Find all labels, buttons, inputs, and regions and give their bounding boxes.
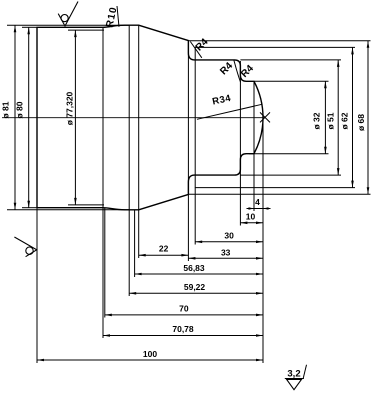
svg-text:22: 22 bbox=[159, 244, 169, 254]
svg-text:3,2: 3,2 bbox=[287, 369, 300, 380]
dim 70 bbox=[105, 314, 263, 316]
dim line dia81 bbox=[14, 25, 16, 210]
part outline bbox=[37, 25, 263, 210]
ext vertical x=188.4 (33 / 22 right) bbox=[187, 41, 189, 261]
ext line dia51 bottom bbox=[240, 174, 341, 176]
svg-text:100: 100 bbox=[143, 349, 157, 359]
svg-text:ø 81: ø 81 bbox=[1, 101, 11, 118]
label R4 second with leader bbox=[234, 60, 241, 82]
svg-text:ø 62: ø 62 bbox=[340, 112, 350, 129]
ext line dia80 top bbox=[22, 26, 37, 28]
ext vertical x=263 (right apex) bbox=[262, 118, 264, 364]
dim 100 bbox=[37, 359, 263, 361]
dim line dia77.32 bbox=[74, 30, 76, 205]
svg-text:56,83: 56,83 bbox=[183, 263, 205, 273]
ext vertical x=254 (4) bbox=[253, 82, 255, 211]
ext line dia32 bottom bbox=[249, 153, 329, 155]
svg-text:ø 32: ø 32 bbox=[312, 112, 322, 129]
ext line dia80 bottom bbox=[22, 207, 37, 209]
dim line dia51 bbox=[337, 60, 339, 175]
ext line dia51 top bbox=[240, 59, 341, 61]
dim line dia62 bbox=[352, 47, 354, 187]
svg-text:70: 70 bbox=[179, 304, 189, 314]
dim 33 bbox=[188, 257, 263, 259]
ext line dia32 top bbox=[254, 80, 329, 82]
ext vertical x=104.8 (70) bbox=[104, 208, 106, 317]
ext vertical x=129.2 (59.22) bbox=[128, 25, 130, 296]
ext vertical x=134.6 (56.83) bbox=[134, 210, 136, 277]
svg-text:ø 51: ø 51 bbox=[326, 112, 336, 129]
dim 59,22 bbox=[129, 292, 263, 294]
ext vertical x=138.7 (22 left) bbox=[138, 25, 140, 258]
dim line dia80 bbox=[28, 27, 30, 207]
svg-text:10: 10 bbox=[246, 211, 256, 221]
svg-text:70,78: 70,78 bbox=[172, 324, 194, 334]
ext line dia81 top bbox=[7, 24, 129, 26]
ext line dia62 bottom bbox=[195, 187, 355, 189]
label R10 with leader bbox=[117, 6, 119, 27]
svg-text:59,22: 59,22 bbox=[184, 282, 206, 292]
svg-text:4: 4 bbox=[255, 197, 260, 207]
ext vertical x=103 (70.78) bbox=[102, 27, 104, 338]
dim 30 bbox=[195, 241, 263, 243]
svg-text:ø 68: ø 68 bbox=[356, 114, 366, 131]
ext vertical x=195.2 (30) bbox=[194, 47, 196, 244]
dim line dia68 bbox=[367, 41, 369, 195]
svg-text:30: 30 bbox=[224, 230, 234, 240]
dim 56,83 bbox=[135, 273, 263, 275]
label R34 with leader bbox=[197, 104, 263, 119]
svg-text:ø 77,320: ø 77,320 bbox=[64, 91, 74, 125]
ext vertical x=240.4 (10) bbox=[239, 61, 241, 226]
ext line dia77.32 top stub bbox=[68, 29, 104, 31]
label R4 first with leader bbox=[190, 42, 202, 58]
dim line dia32 bbox=[324, 81, 326, 153]
ext line dia81 bottom bbox=[7, 209, 129, 211]
ext line dia68 bottom bbox=[188, 193, 370, 195]
ext line dia62 top bbox=[195, 46, 355, 48]
dim 4 bbox=[247, 208, 264, 210]
surface symbol top bbox=[58, 2, 78, 27]
surface symbol left bbox=[14, 237, 36, 257]
svg-text:33: 33 bbox=[221, 247, 231, 257]
dim 10 bbox=[240, 222, 263, 224]
ext line dia77.32 bottom stub bbox=[68, 204, 104, 206]
centerline axis bbox=[2, 117, 265, 119]
svg-text:ø 80: ø 80 bbox=[15, 101, 25, 118]
ext vertical x=37 (left face) bbox=[36, 208, 38, 363]
dim 22 bbox=[139, 254, 189, 256]
dim 70,78 bbox=[103, 335, 263, 337]
ext line dia68 top bbox=[188, 40, 370, 42]
